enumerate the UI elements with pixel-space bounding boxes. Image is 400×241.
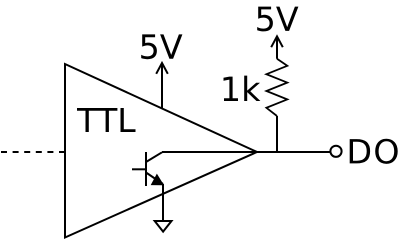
ground symbol (155, 221, 172, 232)
wire: emitter down to ground (162, 184, 164, 221)
power 5V supply at resistor: label 5V (257, 7, 298, 32)
transistor Q1 emitter arrowhead (152, 175, 164, 185)
wire: collector to output terminal (162, 151, 331, 153)
resistor R1 bottom lead (276, 116, 278, 152)
power 5V supply at gate top: lead wire (161, 63, 163, 109)
power 5V supply at resistor: arrowhead (271, 36, 283, 47)
op-amp U1 buffer triangle (TTL gate body) (65, 64, 257, 238)
label 1k (224, 76, 261, 101)
power 5V supply at gate top: arrowhead (156, 63, 168, 74)
transistor Q1 base lead (132, 168, 146, 170)
power 5V supply at gate top: label 5V (141, 34, 182, 59)
transistor Q1 collector lead (146, 152, 162, 162)
label DO (350, 139, 398, 164)
terminal DO open circle (330, 146, 341, 157)
resistor R1 zigzag (266, 59, 287, 116)
power 5V supply at resistor: lead wire (276, 37, 278, 59)
wire: dashed input line (1, 151, 65, 153)
label TTL (77, 108, 136, 132)
transistor Q1 base bar (145, 152, 147, 186)
transistor Q1 emitter lead (146, 173, 163, 185)
